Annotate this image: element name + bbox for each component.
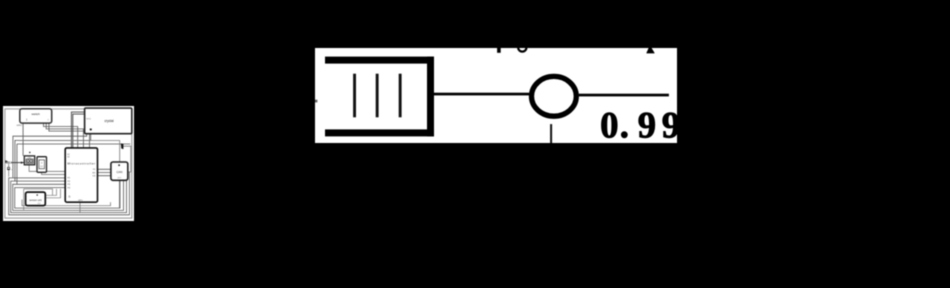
wire bus C: MCU left pins routed around bottom as nested loops — [8, 171, 129, 214]
tiny icon below 433 — [7, 167, 10, 170]
wire server to right — [578, 93, 668, 96]
svg-text:9: 9 — [661, 104, 677, 143]
svg-text:9: 9 — [637, 104, 655, 143]
wire: horizontal to CAN top — [19, 140, 120, 162]
wire below server (departure) — [550, 124, 552, 143]
regulator box — [37, 156, 47, 172]
clipped glyph bowl (bottom of theta) — [518, 48, 526, 52]
svg-text:Microcontroller: Microcontroller — [67, 161, 95, 165]
battery box (top-right) — [84, 108, 131, 134]
svg-text:v1.0: v1.0 — [37, 203, 40, 205]
RF oscillator box — [24, 155, 34, 164]
wire: connector mark to right then down to CAN right — [123, 146, 130, 172]
svg-text:GPIO: GPIO — [16, 124, 22, 126]
server circle — [531, 76, 576, 116]
wire inner bottom loop — [22, 199, 111, 205]
queue slot line 3 — [398, 73, 401, 117]
svg-text:0: 0 — [600, 104, 618, 143]
svg-text:sensor unit: sensor unit — [29, 199, 42, 202]
wire loop around bottom box — [23, 188, 60, 210]
svg-text:G: G — [68, 195, 70, 198]
wire pair: battery box left to MCU top — [71, 112, 84, 148]
arrival wire stub on left edge — [315, 99, 317, 102]
svg-text:.: . — [619, 104, 628, 143]
wire: MCU bottom pin down — [80, 180, 119, 212]
queue slot line 1 — [353, 73, 356, 117]
wire queue to server — [434, 92, 529, 95]
wire: switch box pin1 down to oscillator — [22, 123, 24, 156]
battery box pin dot — [89, 128, 91, 130]
wire bus A: switch box down to MCU top pins — [43, 123, 89, 148]
sensor box (bottom) — [25, 192, 45, 206]
dot above RF box — [29, 151, 31, 153]
clipped glyph serif wedge — [646, 48, 654, 53]
wire: 433 to RF box — [11, 161, 24, 163]
svg-text:a: a — [11, 168, 12, 170]
schematic outer frame — [4, 108, 131, 217]
wire bus B: long horizontals — [12, 133, 129, 184]
queue slot line 2 — [375, 73, 378, 117]
switch box (top-left) — [19, 108, 51, 122]
clipped glyph stem (top, bottom of letter) — [497, 48, 501, 53]
queue top bar — [325, 56, 434, 63]
microcontroller U1 — [65, 147, 97, 201]
queue right bar — [427, 56, 434, 136]
wire arrowhead into RF box — [20, 161, 23, 164]
CAN box (right) — [110, 162, 127, 180]
queue bottom bar — [325, 129, 434, 136]
svg-text:crystal: crystal — [104, 119, 114, 123]
svg-text:CAN: CAN — [116, 169, 122, 173]
connector mark (between battery and CAN) — [120, 143, 123, 149]
wire: MCU right pins to CAN — [97, 169, 110, 175]
svg-text:switch: switch — [31, 112, 40, 116]
wire: RF box bottom down — [8, 163, 64, 176]
svg-text:VCC: VCC — [86, 118, 91, 120]
svg-text:MPU: MPU — [78, 199, 83, 201]
